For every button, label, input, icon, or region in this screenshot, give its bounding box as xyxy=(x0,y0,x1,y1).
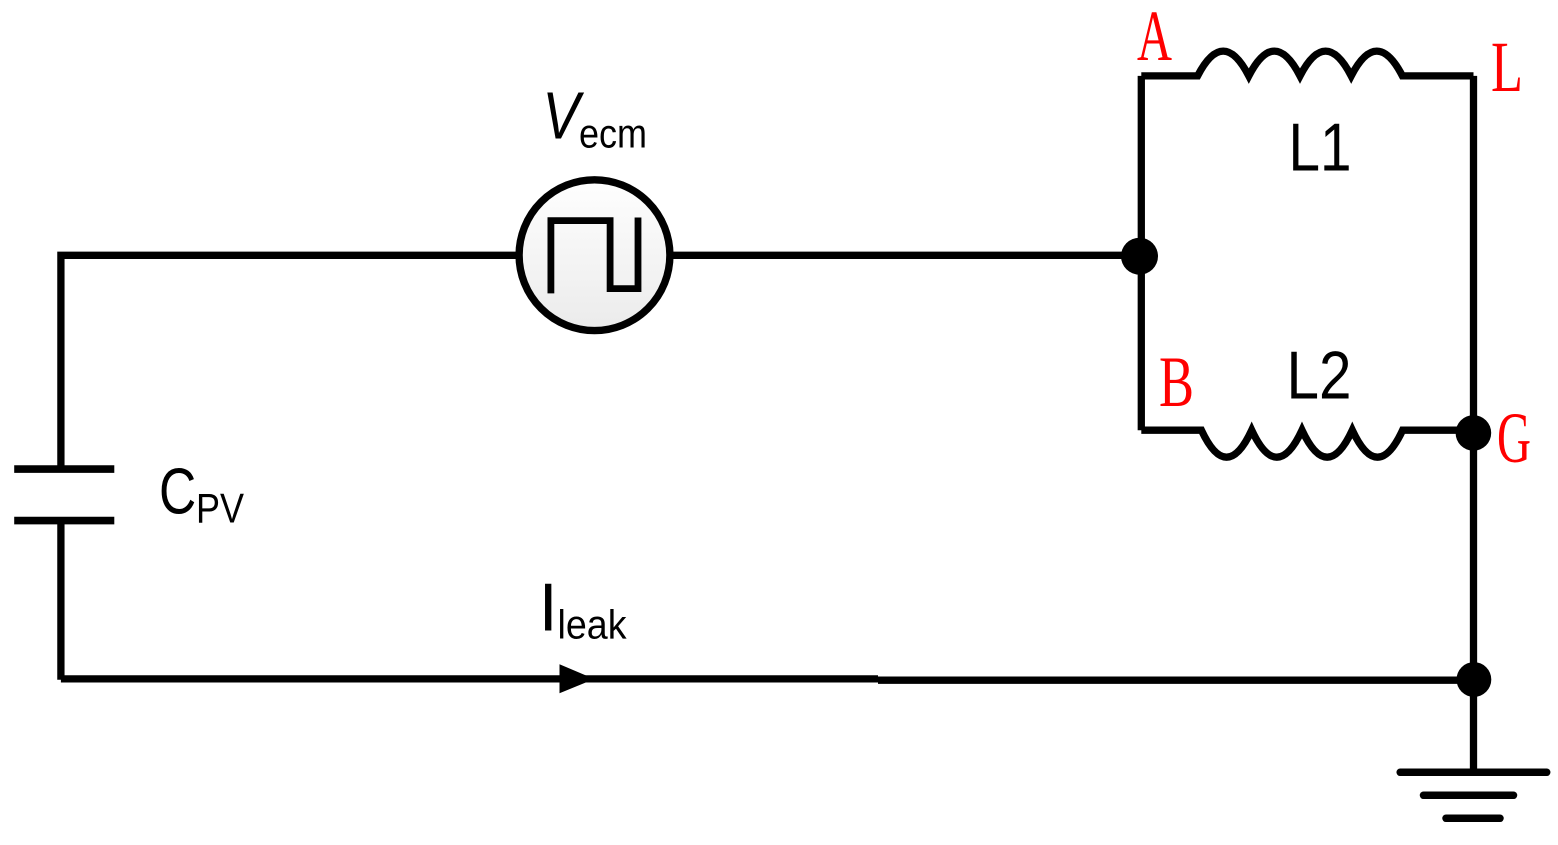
svg-text:leak: leak xyxy=(558,602,627,648)
wire: right vertical L to G to bottom junction to ground xyxy=(1470,76,1477,772)
junction node at bottom rail xyxy=(1457,662,1492,697)
svg-text:ecm: ecm xyxy=(579,111,647,157)
wire: bottom rail (Ileak path) xyxy=(61,675,878,682)
wire: vertical A to B branch xyxy=(1138,76,1145,430)
svg-text:V: V xyxy=(543,78,585,153)
inductor L2 (bottom, with leads) xyxy=(1141,430,1473,457)
svg-text:L1: L1 xyxy=(1289,110,1352,186)
wire: bottom rail right half xyxy=(878,677,1474,684)
svg-text:L: L xyxy=(1491,27,1523,107)
source Vecm circle xyxy=(519,180,670,331)
svg-text:PV: PV xyxy=(196,485,244,532)
svg-text:G: G xyxy=(1497,398,1531,478)
svg-text:A: A xyxy=(1137,0,1172,76)
square-wave glyph inside Vecm xyxy=(551,218,638,294)
svg-text:C: C xyxy=(159,455,196,528)
svg-text:L2: L2 xyxy=(1287,338,1352,414)
junction node G xyxy=(1456,415,1492,451)
svg-text:I: I xyxy=(539,570,558,646)
wire: main horizontal from capacitor branch to node between A and B xyxy=(61,255,1140,466)
junction node between A and B xyxy=(1121,238,1158,275)
capacitor CPV bottom plate xyxy=(14,517,114,525)
capacitor CPV top plate xyxy=(14,465,114,473)
inductor L1 (top, with leads) xyxy=(1141,51,1473,76)
svg-text:B: B xyxy=(1159,342,1194,422)
ground symbol xyxy=(1400,769,1547,777)
arrow: Ileak current direction xyxy=(560,664,595,693)
wire: left branch below capacitor down to bottom rail xyxy=(57,521,64,680)
